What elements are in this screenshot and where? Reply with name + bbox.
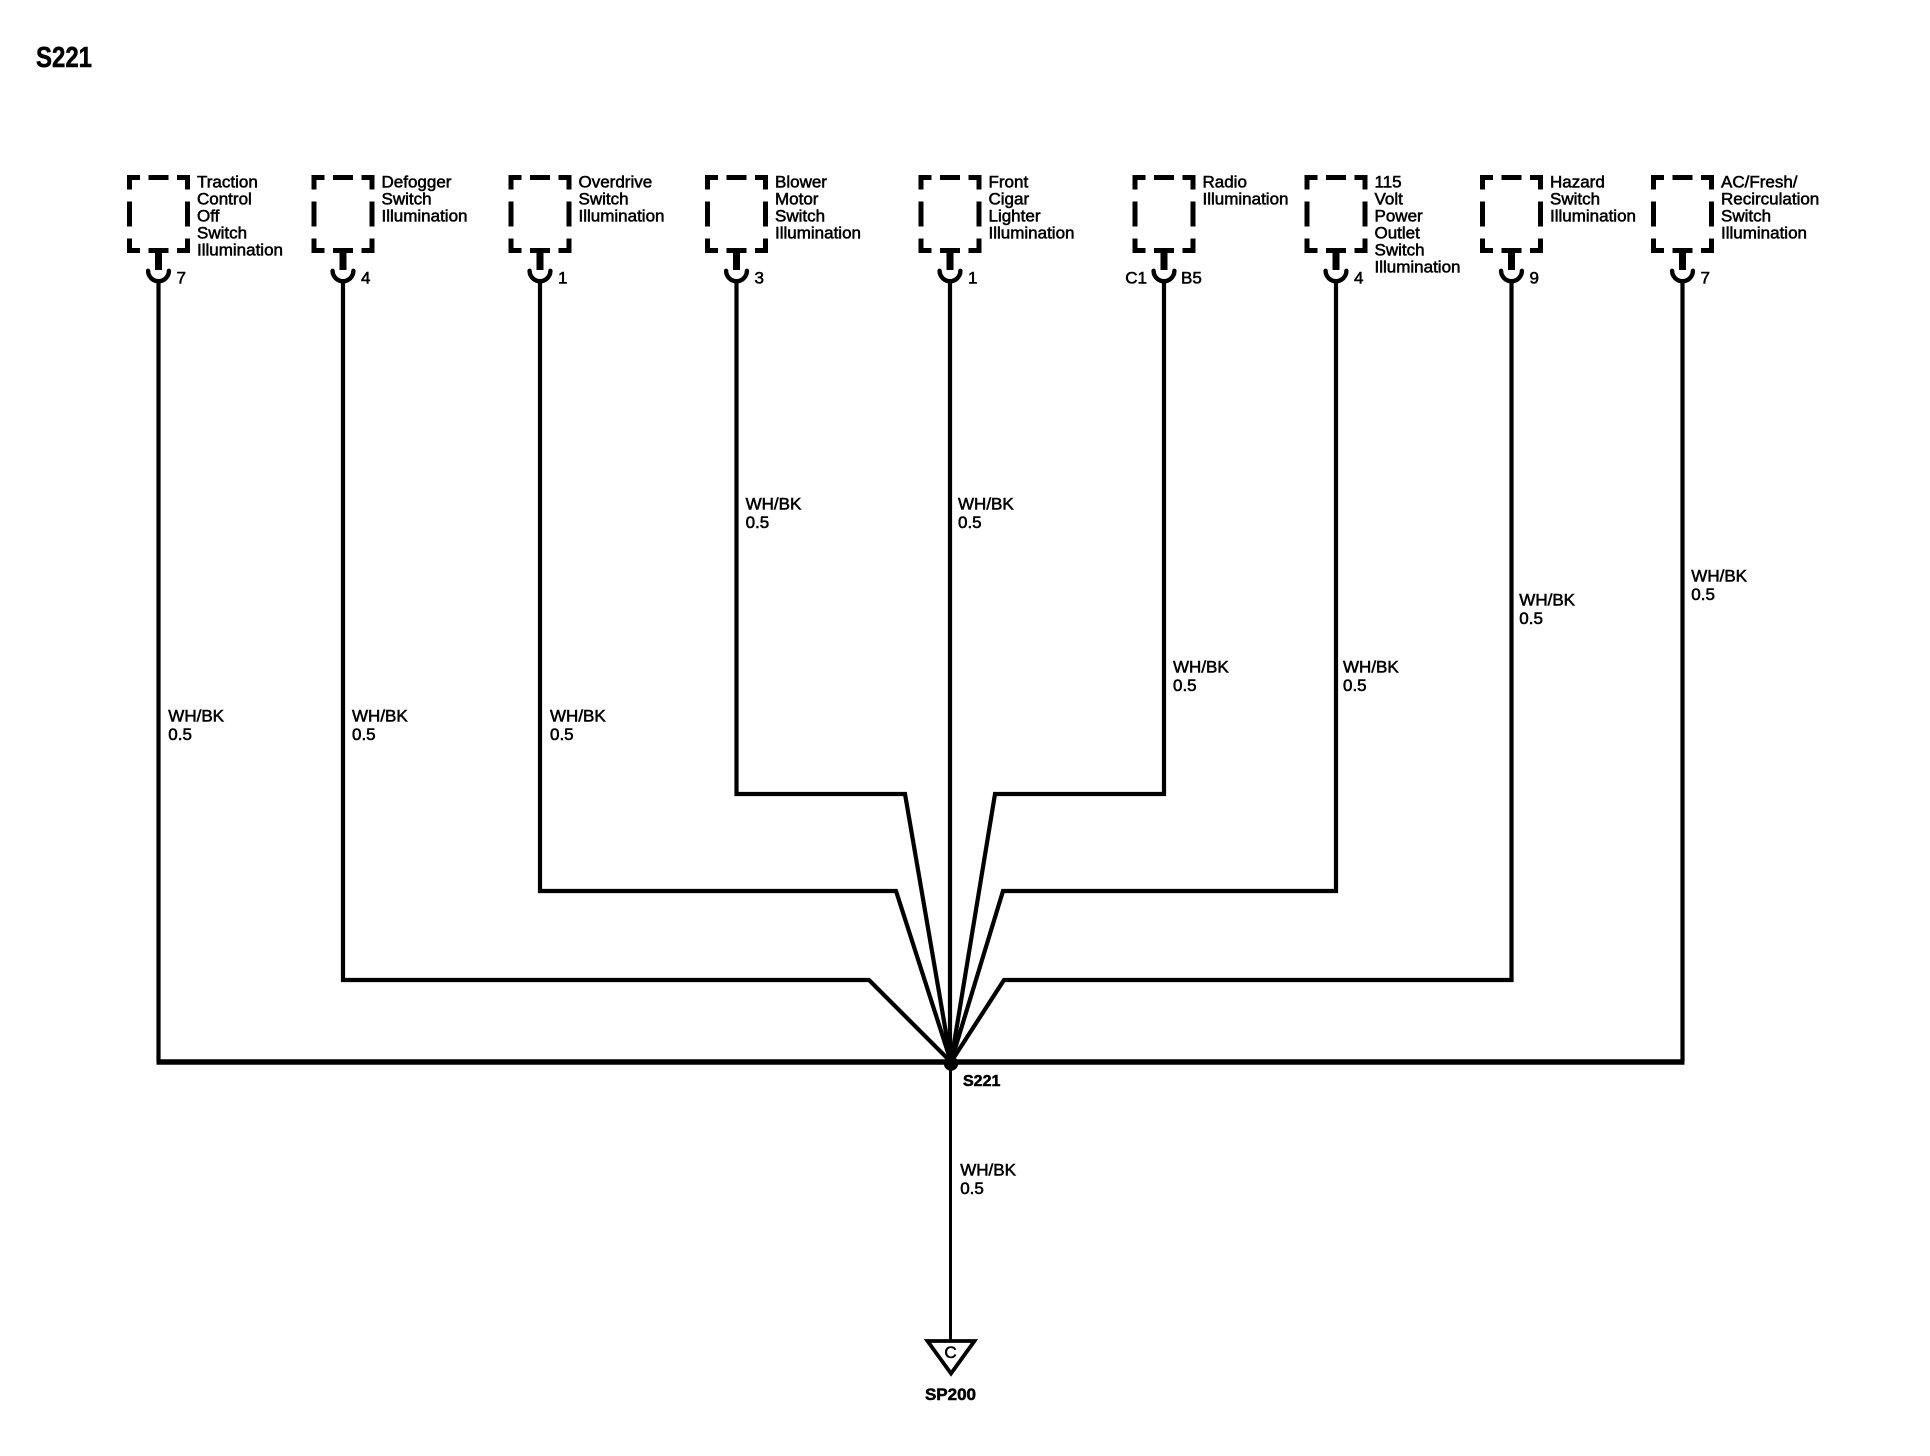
pin terminal of 115 Volt Power Outlet Switch Illumination — [1326, 248, 1347, 281]
pin terminal of Defogger Switch Illumination — [333, 248, 354, 281]
pin terminal of Overdrive Switch Illumination — [530, 248, 551, 281]
wire from AC/Fresh/Recirculation switch pin 7 down to splice bus — [1680, 283, 1684, 1062]
wire from Front Cigar Lighter pin 1 straight down to splice S221 — [948, 283, 952, 1062]
wire from Overdrive switch pin 1: down, right at y891, diagonal to splice S221 — [540, 283, 951, 1062]
splice bus horizontal wire joining outer wires at S221 — [157, 1059, 1685, 1064]
ground symbol SP200 (triangle with C) — [928, 1341, 975, 1374]
pin terminal of Front Cigar Lighter Illumination — [940, 248, 961, 281]
connector box: Radio Illumination — [1133, 175, 1196, 253]
connector box: Defogger Switch Illumination — [312, 175, 375, 253]
wire from Hazard switch pin 9: down, left at y980, diagonal to splice S221 — [951, 283, 1512, 1062]
svg-text:SP200: SP200 — [925, 1385, 976, 1404]
svg-text:C: C — [944, 1343, 956, 1362]
connector box: Hazard Switch Illumination — [1480, 175, 1543, 253]
connector box: Overdrive Switch Illumination — [509, 175, 572, 253]
connector box: Traction Control Off Switch Illumination — [127, 175, 190, 253]
wire from Radio pin B5: down, left at y794, diagonal to splice S221 — [951, 283, 1164, 1062]
svg-text:S221: S221 — [963, 1073, 1000, 1090]
connector box: Blower Motor Switch Illumination — [705, 175, 768, 253]
connector box: AC/Fresh/Recirculation Switch Illumination — [1651, 175, 1714, 253]
pin terminal of Radio Illumination — [1154, 248, 1175, 281]
wire from splice S221 down to ground SP200 — [949, 1062, 952, 1340]
svg-text:7: 7 — [177, 269, 186, 288]
pin terminal of Hazard Switch Illumination — [1501, 248, 1522, 281]
wire from Defogger switch pin 4: down, right at y980, diagonal to splice S221 — [343, 283, 951, 1062]
pin terminal of AC/Fresh/Recirculation Switch Illumination — [1672, 248, 1693, 281]
svg-text:3: 3 — [755, 269, 764, 288]
svg-text:7: 7 — [1701, 269, 1710, 288]
svg-text:C1: C1 — [1125, 269, 1147, 288]
connector box: Front Cigar Lighter Illumination — [919, 175, 982, 253]
svg-text:1: 1 — [558, 269, 567, 288]
svg-text:S221: S221 — [36, 42, 92, 74]
wire from Traction Control Off switch pin 7 down to splice bus — [156, 283, 160, 1062]
svg-text:4: 4 — [1354, 269, 1363, 288]
wire from 115V Power Outlet switch pin 4: down, left at y891, diagonal to splice S221 — [951, 283, 1336, 1062]
svg-text:B5: B5 — [1181, 269, 1202, 288]
svg-text:4: 4 — [361, 269, 370, 288]
svg-text:1: 1 — [968, 269, 977, 288]
connector box: 115 Volt Power Outlet Switch Illumination — [1305, 175, 1368, 253]
splice junction dot S221 — [944, 1056, 958, 1070]
pin terminal of Blower Motor Switch Illumination — [726, 248, 747, 281]
wire from Blower Motor switch pin 3: down, right at y794, diagonal to splice S221 — [737, 283, 952, 1062]
pin terminal of Traction Control Off Switch Illumination — [148, 248, 169, 281]
svg-text:9: 9 — [1530, 269, 1539, 288]
